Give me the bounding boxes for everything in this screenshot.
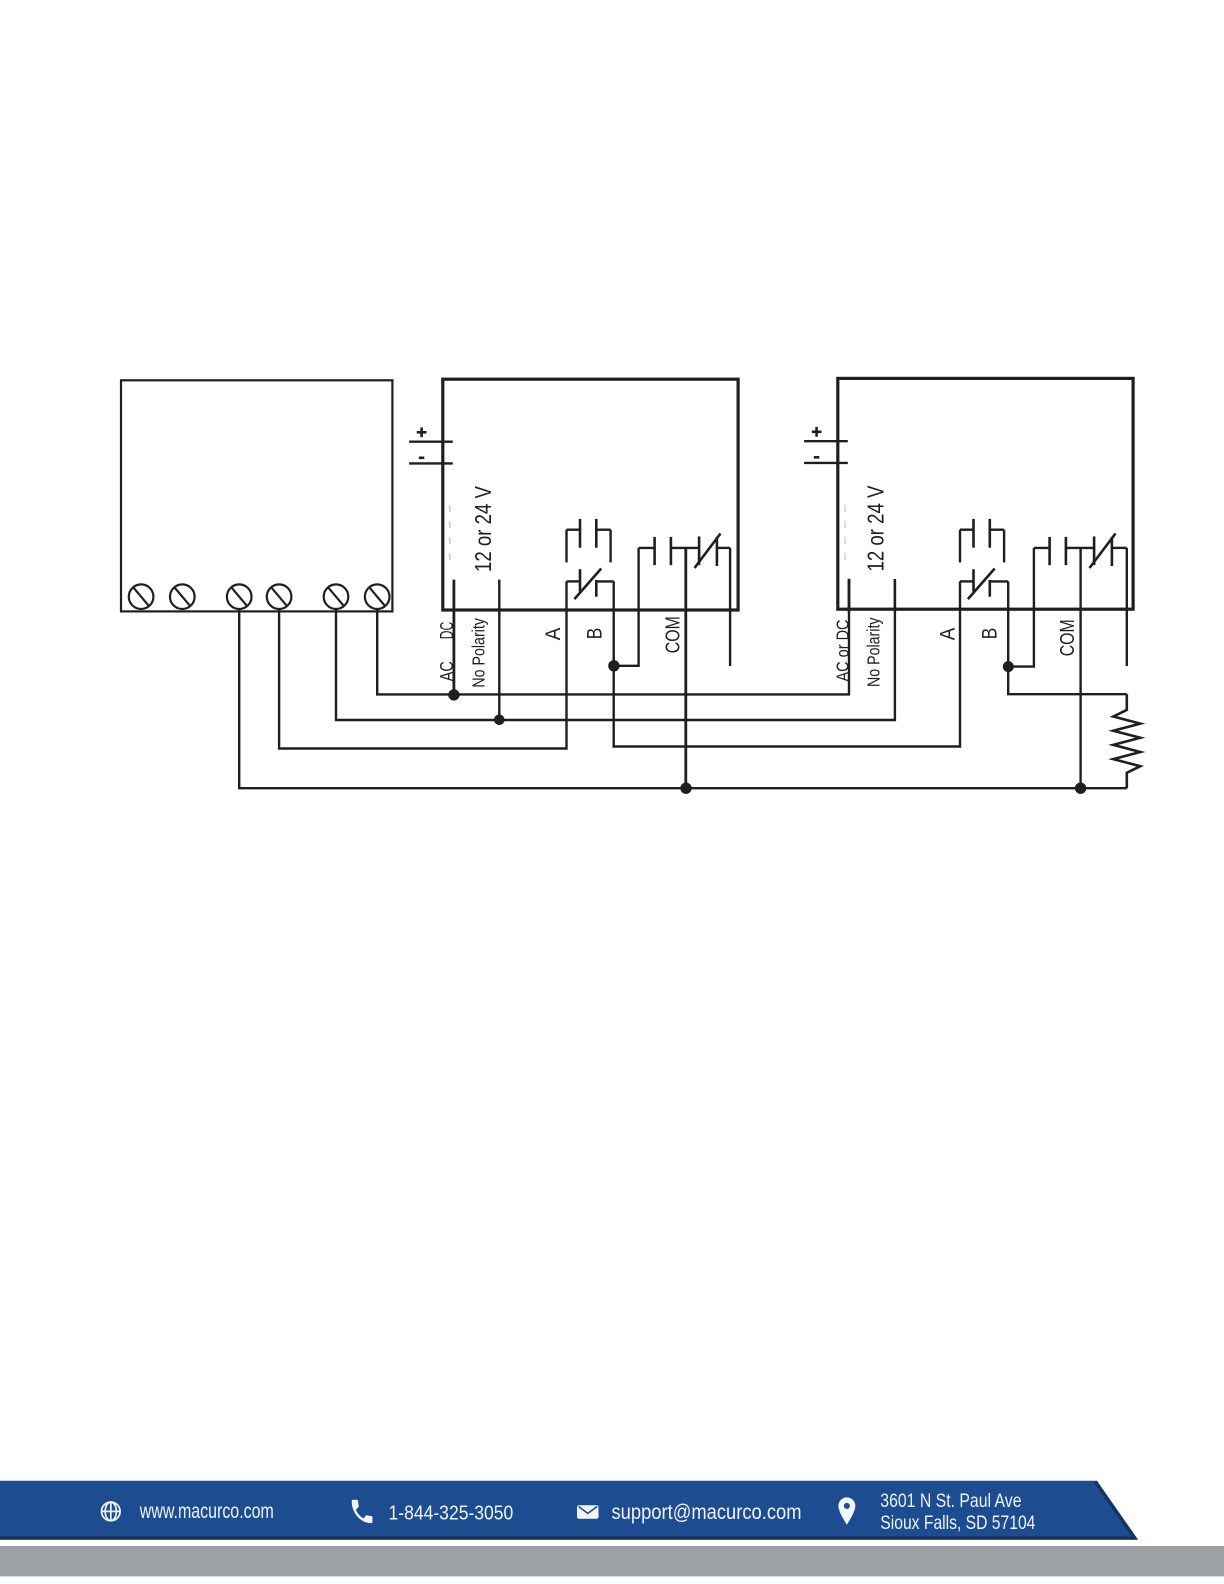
svg-text:No Polarity: No Polarity bbox=[863, 617, 883, 687]
footer blue band bbox=[0, 1481, 1224, 1577]
wire: middle No Polarity terminal down to junction bbox=[498, 580, 500, 720]
screw terminal 4 bbox=[267, 584, 292, 609]
node: right COM bus junction bbox=[1075, 783, 1086, 794]
rotated labels bbox=[437, 485, 1079, 688]
svg-text:AC or DC: AC or DC bbox=[833, 620, 853, 682]
NC slash K3 bbox=[968, 569, 995, 600]
relay K2 contacts (middle box, COM group) bbox=[639, 547, 655, 549]
wire: terminal 3 down to bottom bus bbox=[239, 609, 1127, 788]
relay K3 NC contact (right box, bottom) bbox=[974, 569, 990, 597]
node: right B junction bbox=[1003, 661, 1014, 672]
relay K1 NO contact (middle box, top) bbox=[580, 519, 596, 548]
NC slash K1 bbox=[574, 569, 601, 600]
relay box U3 (right device) bbox=[838, 378, 1133, 609]
wire: right B junction elbow up to K4 bbox=[1008, 548, 1034, 667]
phone icon bbox=[352, 1500, 373, 1523]
mail icon bbox=[577, 1505, 599, 1519]
wire: right B terminal down to elbow, right to resistor bbox=[1008, 581, 1127, 694]
svg-text:DC: DC bbox=[437, 622, 457, 640]
NC slash K2 bbox=[695, 534, 721, 569]
relay K3 NO contact (right box, top) bbox=[974, 519, 990, 548]
battery BT1 minus plate bbox=[409, 462, 453, 464]
relay K1 NC contact (middle box, bottom) bbox=[580, 569, 596, 597]
wire: terminal 6 to AC line, to right box AC or DC bbox=[377, 579, 849, 695]
stub wire below K4 right lead bbox=[1126, 548, 1128, 666]
battery BT1 plus plate bbox=[409, 441, 453, 443]
crease artifact bbox=[449, 505, 451, 568]
svg-text:COM: COM bbox=[1056, 619, 1079, 656]
svg-text:www.macurco.com: www.macurco.com bbox=[139, 1500, 274, 1523]
crease artifact right bbox=[844, 505, 846, 565]
node: middle COM bus junction bbox=[680, 783, 691, 794]
wire: right AC or DC terminal down bbox=[848, 579, 851, 612]
location pin icon bbox=[838, 1497, 855, 1524]
wire: middle B terminal down, right to right box A bbox=[614, 581, 960, 746]
wire: middle COM down to bus bbox=[684, 548, 687, 788]
svg-text:COM: COM bbox=[662, 616, 685, 653]
battery BT2 minus plate bbox=[804, 462, 848, 464]
svg-text:3601 N St. Paul Ave: 3601 N St. Paul Ave bbox=[880, 1490, 1021, 1512]
wire: middle B junction elbow up to K2 bbox=[614, 548, 639, 666]
footer icons bbox=[102, 1502, 121, 1521]
node: No Polarity junction bbox=[494, 715, 505, 726]
junction dots bbox=[448, 660, 1086, 794]
screw terminal 3 bbox=[227, 584, 252, 609]
svg-text:12 or 24 V: 12 or 24 V bbox=[862, 485, 888, 572]
wire: terminal 5 to No Polarity line, to right box No Polarity bbox=[336, 579, 895, 720]
svg-text:Sioux Falls, SD 57104: Sioux Falls, SD 57104 bbox=[880, 1512, 1035, 1534]
svg-text:AC: AC bbox=[437, 661, 457, 681]
wire: right No Polarity terminal down bbox=[894, 579, 896, 612]
detector box U1 (left device with screw terminals) bbox=[121, 380, 392, 611]
plus sign BT1 bbox=[417, 427, 427, 437]
NC slash K4 bbox=[1090, 534, 1116, 569]
svg-text:12 or 24 V: 12 or 24 V bbox=[470, 485, 496, 572]
screw terminal 1 bbox=[129, 584, 154, 609]
node: AC junction bbox=[448, 689, 459, 700]
svg-text:A: A bbox=[542, 628, 565, 641]
svg-text:B: B bbox=[584, 628, 607, 640]
stub wire below K2 right lead bbox=[729, 548, 731, 666]
relay box U2 (middle device) bbox=[443, 379, 738, 610]
svg-text:support@macurco.com: support@macurco.com bbox=[612, 1501, 802, 1524]
footer texts bbox=[139, 1490, 1035, 1534]
resistor R1 (end of line) bbox=[1113, 694, 1140, 788]
battery BT2 plus plate bbox=[804, 440, 848, 442]
globe icon bbox=[102, 1502, 121, 1521]
minus sign BT2 bbox=[814, 456, 820, 459]
minus sign BT1 bbox=[419, 456, 425, 459]
svg-text:No Polarity: No Polarity bbox=[469, 618, 489, 688]
screw terminal 2 bbox=[170, 584, 195, 609]
node: middle B junction bbox=[608, 660, 619, 671]
svg-text:A: A bbox=[937, 628, 960, 641]
screw terminal 5 bbox=[324, 584, 349, 609]
wire: middle AC/DC terminal down to junction bbox=[452, 580, 455, 695]
svg-text:B: B bbox=[979, 628, 1002, 640]
svg-text:1-844-325-3050: 1-844-325-3050 bbox=[389, 1501, 514, 1524]
wire: middle A terminal down, left to terminal 4 bbox=[279, 581, 566, 748]
plus sign BT2 bbox=[812, 427, 822, 437]
relay K4 contacts (right box, COM group) bbox=[1034, 547, 1050, 549]
gray bar bbox=[0, 1546, 1224, 1576]
screw terminal 6 bbox=[365, 584, 390, 609]
wire: right COM down to bus bbox=[1079, 548, 1081, 788]
